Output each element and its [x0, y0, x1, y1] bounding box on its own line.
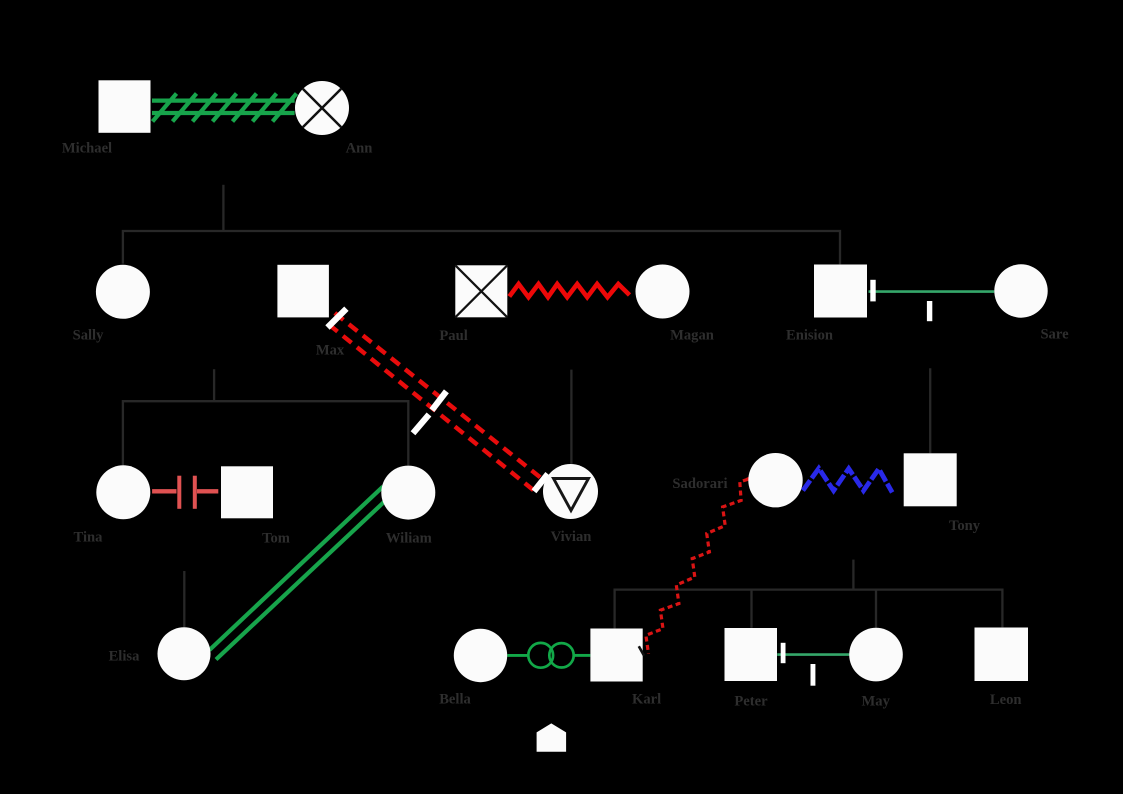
person Tina: circle — [96, 465, 150, 519]
white bar on line near Enision — [870, 280, 875, 302]
white bar below line midpoint Peter-May — [811, 664, 816, 686]
wire: sibling bar generation 4 with stubs to Karl and Leon — [615, 590, 1003, 629]
wire: stub to May — [875, 590, 877, 628]
white slash mid lower — [413, 415, 429, 434]
wire: descent line from Sally+Max union — [213, 369, 215, 401]
svg-text:May: May — [862, 694, 891, 710]
person May: circle — [849, 628, 903, 682]
relationship Wiliam-Elisa: green double solid diagonal — [210, 487, 390, 660]
person Sadorari: circle — [748, 453, 802, 507]
svg-text:Max: Max — [316, 343, 345, 359]
svg-text:Karl: Karl — [632, 692, 661, 708]
person Enision: square — [814, 265, 867, 318]
svg-text:Paul: Paul — [439, 328, 467, 344]
svg-text:Wiliam: Wiliam — [386, 531, 432, 547]
svg-text:Magan: Magan — [670, 328, 714, 344]
wire: descent line from Paul+Magan union to Vivian — [570, 370, 572, 464]
svg-text:Peter: Peter — [734, 694, 768, 710]
svg-text:Sadorari: Sadorari — [672, 476, 727, 492]
person Sare: circle — [994, 264, 1047, 317]
white slash mid upper — [432, 391, 447, 410]
wire: sibling bar generation 2 with stubs to Sally and Enision — [123, 231, 840, 264]
white slash at Vivian end — [534, 474, 548, 491]
relationship Sadorari-Karl: red dashed sawtooth — [747, 476, 760, 480]
person Ann: circle with X (deceased) — [295, 81, 349, 135]
relationship Bella-Karl: green line with interlocked rings — [507, 654, 529, 657]
person Vivian: circle with inverted triangle — [543, 464, 598, 519]
person Peter: square — [725, 628, 778, 681]
person Wiliam: circle — [381, 466, 435, 520]
house pentagon marker — [537, 723, 567, 751]
wire: descent line from Enision+Sare union to Tony — [929, 368, 931, 453]
person Tony: square — [904, 453, 957, 506]
relationship Enision-Sare: thin green line — [869, 290, 995, 293]
svg-text:Leon: Leon — [990, 692, 1022, 708]
person Elisa: circle — [158, 627, 211, 680]
person Karl: square — [590, 629, 642, 682]
svg-text:Sare: Sare — [1040, 327, 1069, 343]
white bar below line midpoint Enision-Sare — [927, 301, 932, 321]
person Paul: square with X (deceased) — [455, 265, 507, 317]
white bar on line near Peter — [781, 643, 786, 663]
person Bella: circle — [454, 629, 507, 682]
relationship Sadorari-Tony: blue zigzag — [803, 468, 892, 492]
relationship Max-Vivian: red double dashed diagonal — [329, 313, 545, 494]
wire: stub to Peter — [750, 590, 752, 628]
svg-text:Elisa: Elisa — [109, 649, 141, 665]
wire: sibling bar generation 3 with stubs to Tina and Wiliam — [123, 401, 408, 465]
relationship Michael-Ann: green double line with hatch slashes — [152, 94, 297, 122]
relationship Tina-Tom: salmon cutoff line with double bars — [152, 476, 218, 509]
wire: descent line from Michael+Ann union — [222, 185, 224, 231]
person Magan: circle — [636, 265, 690, 319]
relationship Peter-May: thin green line — [777, 653, 849, 656]
svg-text:Michael: Michael — [62, 141, 112, 157]
svg-text:Tom: Tom — [262, 531, 290, 547]
person Max: square — [277, 265, 329, 318]
svg-text:Tina: Tina — [74, 530, 104, 546]
svg-text:Bella: Bella — [439, 692, 471, 708]
black hook at end of sawtooth near Karl — [639, 646, 644, 655]
svg-text:Ann: Ann — [346, 141, 373, 157]
svg-text:Vivian: Vivian — [551, 529, 592, 545]
wire: descent line from Tina+Tom union to Elisa — [183, 571, 185, 627]
wire: descent line from Sadorari+Tony union — [852, 560, 854, 590]
white slash at Max end — [328, 309, 347, 328]
svg-text:Tony: Tony — [949, 518, 981, 534]
person Leon: square — [975, 628, 1029, 682]
svg-text:Sally: Sally — [73, 328, 105, 344]
svg-text:Enision: Enision — [786, 328, 833, 344]
relationship Paul-Magan: red zigzag — [509, 284, 629, 297]
person Sally: circle — [96, 265, 150, 319]
person Michael: square — [99, 80, 151, 133]
person Tom: square — [221, 466, 273, 518]
